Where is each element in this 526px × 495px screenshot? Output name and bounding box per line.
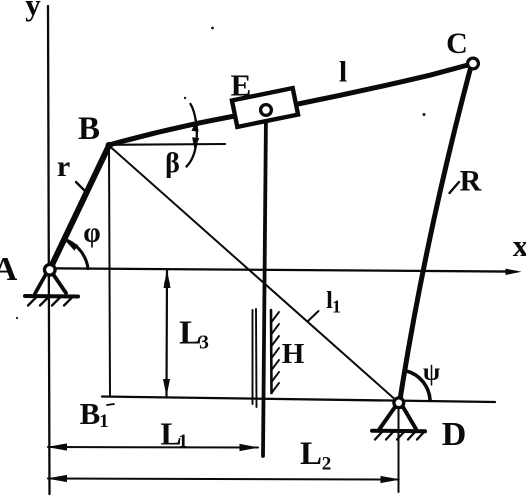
beta arrowhead lower	[192, 137, 199, 149]
slider block E	[232, 88, 298, 127]
ground at D: hatch strokes	[375, 432, 424, 440]
L3 arrow down	[163, 379, 170, 397]
svg-text:y: y	[25, 0, 41, 22]
leader tick for r	[76, 182, 85, 191]
wire: vertical line B to B1	[109, 148, 110, 397]
svg-text:A: A	[0, 251, 18, 288]
phi arc arrowhead	[66, 242, 78, 251]
joint dot B	[105, 142, 112, 149]
svg-text:2: 2	[322, 454, 332, 475]
angle arc beta at B	[187, 104, 197, 167]
svg-text:1: 1	[332, 297, 341, 317]
ground at A: hatch strokes	[28, 298, 72, 306]
y axis	[48, 6, 50, 494]
L2 arrow left	[47, 475, 68, 482]
x axis	[50, 268, 516, 271]
svg-text:C: C	[446, 27, 468, 60]
ground at A: base line	[25, 294, 78, 299]
svg-text:β: β	[165, 148, 180, 179]
L3 ink blob	[164, 280, 170, 286]
L1 arrow right	[240, 444, 260, 451]
angle arc phi at A	[68, 241, 89, 269]
svg-text:l: l	[339, 56, 347, 89]
svg-text:ψ: ψ	[423, 359, 440, 386]
svg-text:x: x	[513, 228, 526, 263]
pin circle in block E	[261, 105, 272, 116]
L1 arrow left	[47, 443, 68, 450]
svg-text:1: 1	[99, 411, 109, 432]
x axis arrowhead	[506, 269, 522, 275]
wire: slider guide left line b	[255, 309, 258, 407]
leader tick for R	[450, 182, 460, 193]
wire: horizontal reference line from B	[110, 143, 225, 146]
L2 arrow right	[381, 476, 401, 483]
svg-text:φ: φ	[83, 218, 100, 249]
wire: vertical extension below D	[398, 409, 400, 492]
dimension L1 line	[48, 446, 258, 449]
wire: guide wall with hatching H	[270, 310, 273, 393]
svg-text:3: 3	[199, 333, 209, 354]
angle arc psi at D	[407, 371, 431, 400]
leader tick for l1	[308, 311, 319, 322]
svg-text:R: R	[460, 165, 482, 198]
dimension L3 line	[165, 270, 168, 396]
dimension L2 line	[48, 479, 398, 480]
svg-text:D: D	[442, 416, 467, 453]
tick above B1	[107, 404, 114, 405]
wire: baseline B1 to D	[102, 397, 495, 403]
ground at A: triangle	[35, 274, 66, 294]
speckle dots (scan noise)	[16, 27, 426, 320]
ground at D: triangle	[380, 407, 417, 429]
slider rod from E downward	[263, 113, 266, 457]
beta arrowhead upper	[191, 120, 198, 132]
svg-text:1: 1	[178, 431, 188, 452]
svg-text:B: B	[78, 111, 100, 147]
link l (coupler B-E-C)	[109, 66, 466, 146]
svg-text:L: L	[300, 436, 322, 472]
svg-text:H: H	[282, 338, 305, 370]
svg-text:r: r	[57, 150, 70, 183]
joint circle C	[468, 58, 479, 69]
L3 arrow up	[164, 270, 171, 289]
link R (rocker CD)	[400, 70, 470, 401]
svg-text:B: B	[80, 396, 101, 431]
hatching of guide wall	[272, 312, 280, 393]
pivot circle D	[394, 398, 404, 408]
pivot circle A	[45, 265, 56, 276]
svg-text:E: E	[231, 68, 252, 103]
ground at D: base line	[372, 429, 425, 434]
wire: slider guide left line a	[252, 310, 254, 404]
wire: thin diagonal l1 from B to D	[110, 147, 398, 403]
link r (crank AB)	[50, 146, 109, 270]
